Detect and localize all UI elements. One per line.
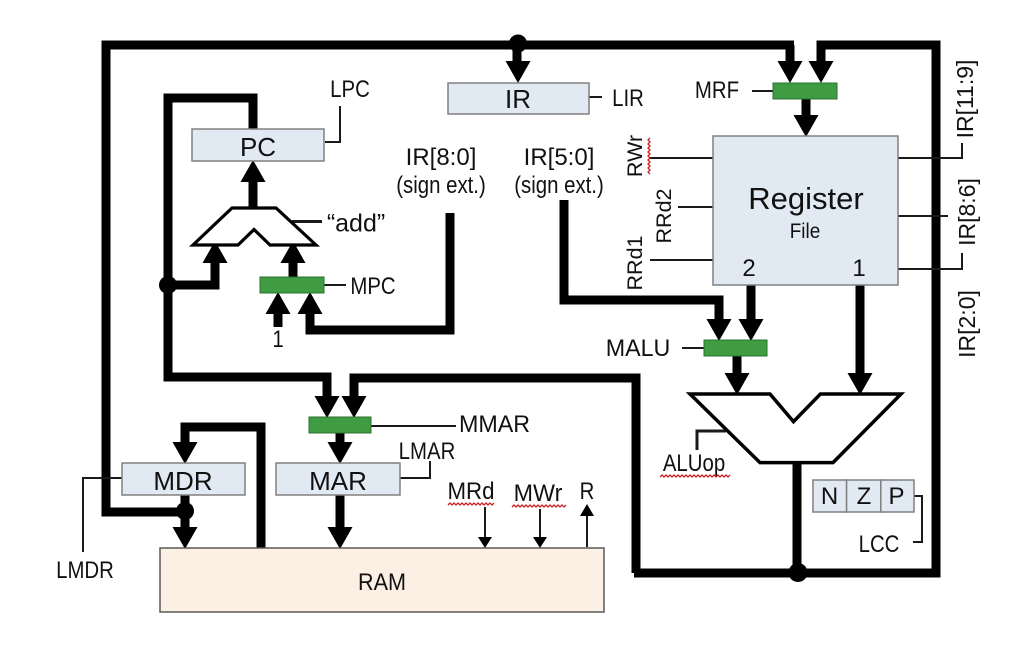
svg-text:MWr: MWr xyxy=(514,481,563,507)
svg-text:R: R xyxy=(580,477,595,504)
svg-text:IR[2:0]: IR[2:0] xyxy=(954,290,980,358)
svg-text:1: 1 xyxy=(852,255,865,282)
svg-text:Z: Z xyxy=(857,483,872,510)
svg-text:RWr: RWr xyxy=(623,135,647,177)
svg-text:LMAR: LMAR xyxy=(399,437,456,464)
svg-text:2: 2 xyxy=(742,255,755,282)
svg-text:RRd2: RRd2 xyxy=(652,189,676,244)
svg-text:LCC: LCC xyxy=(859,530,900,557)
svg-text:LIR: LIR xyxy=(612,84,644,111)
svg-text:IR[11:9]: IR[11:9] xyxy=(952,60,978,139)
svg-text:RRd1: RRd1 xyxy=(623,236,647,291)
svg-text:RAM: RAM xyxy=(358,568,406,595)
svg-text:MRd: MRd xyxy=(447,477,494,504)
svg-text:N: N xyxy=(821,483,838,510)
svg-text:IR[8:0]: IR[8:0] xyxy=(406,144,477,171)
svg-text:IR[5:0]: IR[5:0] xyxy=(524,144,595,171)
svg-text:MDR: MDR xyxy=(153,466,212,496)
svg-text:(sign ext.): (sign ext.) xyxy=(514,171,604,198)
svg-text:MMAR: MMAR xyxy=(459,412,530,438)
svg-text:MALU: MALU xyxy=(606,336,671,362)
svg-text:1: 1 xyxy=(272,325,283,352)
svg-text:MAR: MAR xyxy=(309,466,367,496)
svg-text:ALUop: ALUop xyxy=(663,449,725,476)
svg-text:MRF: MRF xyxy=(695,76,739,103)
svg-text:“add”: “add” xyxy=(327,210,385,238)
svg-text:LPC: LPC xyxy=(330,75,370,102)
svg-text:(sign ext.): (sign ext.) xyxy=(396,171,486,198)
svg-text:Register: Register xyxy=(748,181,863,216)
svg-text:LMDR: LMDR xyxy=(56,556,114,583)
svg-text:MPC: MPC xyxy=(350,272,395,299)
svg-text:IR: IR xyxy=(505,84,531,114)
svg-text:PC: PC xyxy=(240,132,276,162)
svg-text:IR[8:6]: IR[8:6] xyxy=(954,178,980,246)
svg-text:File: File xyxy=(790,220,820,243)
svg-text:P: P xyxy=(888,483,904,510)
